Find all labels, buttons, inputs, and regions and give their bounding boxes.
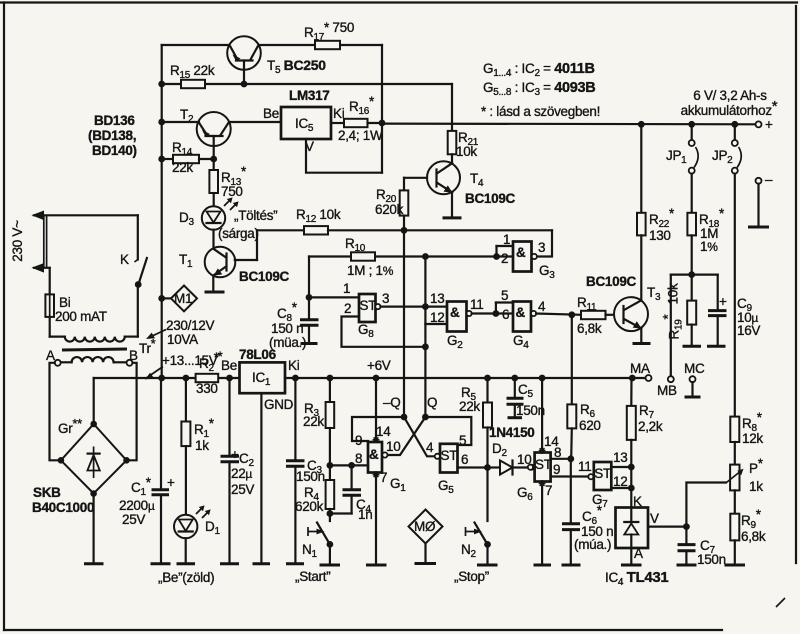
resistor R19 10k (661, 275, 702, 347)
resistor R5 22k (459, 378, 492, 468)
svg-text:LM317: LM317 (289, 88, 330, 103)
svg-text:G2: G2 (447, 333, 463, 351)
svg-text:Ki: Ki (288, 358, 300, 373)
pushbutton N1 Start (295, 523, 340, 585)
svg-text:3: 3 (538, 240, 545, 255)
svg-text:G5...8 : IC3 = 4093B: G5...8 : IC3 = 4093B (483, 80, 595, 98)
svg-text:6,8k: 6,8k (741, 529, 766, 544)
battery + rail (382, 117, 773, 132)
wire -Q vertical (403, 230, 405, 417)
resistor R14 22k (158, 140, 217, 175)
node A (46, 348, 61, 366)
svg-text:BC109C: BC109C (586, 274, 637, 289)
LED D3 Toltes sarga (179, 197, 277, 241)
transformer Tr secondary winding (60, 357, 126, 362)
resistor R11 6,8k (577, 295, 614, 336)
resistor R22 130 (637, 124, 675, 300)
node: bus to rail (158, 375, 165, 382)
node: R4/C4/N1 junction (327, 510, 334, 517)
svg-text:12k: 12k (742, 431, 763, 446)
svg-text:T5 BC250: T5 BC250 (267, 57, 326, 76)
svg-text:+: + (765, 117, 773, 132)
node: C8/G8 junction (306, 257, 313, 301)
resistor R3 22k (303, 378, 334, 465)
svg-text:Tr*: Tr* (139, 336, 156, 356)
svg-text:N2: N2 (461, 542, 476, 560)
svg-text:ST: ST (360, 298, 377, 313)
svg-text:C1*: C1* (131, 475, 152, 498)
svg-text:25V: 25V (122, 512, 145, 527)
label 6V/3,2Ah-s akkumulatorhoz (681, 88, 778, 118)
svg-text:G3: G3 (539, 263, 555, 281)
svg-text:9: 9 (553, 462, 560, 477)
svg-text:G5: G5 (438, 478, 454, 496)
svg-text:750: 750 (221, 184, 243, 199)
svg-text:T1: T1 (179, 252, 193, 270)
svg-text:(sárga): (sárga) (218, 226, 259, 241)
svg-text:9: 9 (355, 433, 362, 448)
wire G1 pin9 loop (352, 417, 404, 441)
svg-text:JP2: JP2 (712, 148, 733, 166)
svg-text:3: 3 (382, 291, 389, 306)
svg-text:230 V~: 230 V~ (10, 220, 25, 262)
svg-text:MA: MA (630, 361, 650, 376)
node: R1 top (183, 375, 190, 382)
svg-text:R22*: R22* (649, 206, 675, 230)
resistor R9 6,8k (725, 490, 766, 565)
voltage regulator IC1 78L06 (221, 347, 300, 564)
wire T5 row corner down to R21 (451, 84, 453, 131)
node: R22 on battery rail (638, 121, 645, 128)
resistor R13 750 (209, 159, 247, 206)
measuring point MC (684, 361, 705, 397)
rail +13..15V / +6V horizontal (left part) (94, 377, 240, 379)
svg-text:12: 12 (613, 474, 627, 489)
svg-text:D2: D2 (492, 441, 507, 459)
wire P wiper to V node (686, 483, 725, 527)
capacitor C6 150n mua (562, 459, 614, 565)
svg-text:(müa.): (müa.) (269, 335, 306, 350)
svg-text:R1*: R1* (194, 416, 215, 440)
svg-text:13: 13 (613, 450, 627, 465)
svg-text:230/12V: 230/12V (166, 318, 214, 333)
node: G7 pin13 (628, 464, 635, 471)
node: V / C7 junction (683, 523, 690, 530)
transistor T2 (158, 107, 281, 159)
resistor R6 620 (567, 315, 600, 459)
svg-text:6: 6 (461, 452, 468, 467)
svg-text:620k: 620k (375, 202, 404, 217)
svg-text:14: 14 (376, 424, 391, 439)
svg-text:4: 4 (538, 299, 546, 314)
svg-text:K: K (120, 252, 129, 267)
svg-text:150n: 150n (516, 403, 545, 418)
svg-text:+: + (231, 447, 239, 462)
svg-text:A: A (46, 348, 55, 363)
svg-text:MC: MC (684, 361, 705, 376)
svg-text:G8: G8 (358, 322, 374, 340)
NAND gate G2 (425, 291, 494, 351)
wire T1 base up to R12 (256, 230, 258, 260)
resistor R2 330 (196, 350, 220, 396)
node: R3 top (327, 375, 334, 382)
svg-text:MØ: MØ (414, 519, 436, 534)
svg-text:1k: 1k (749, 479, 763, 494)
Schmitt gate G6 (mirrored) (517, 378, 588, 565)
svg-text:13: 13 (430, 291, 444, 306)
regulator IC5 LM317 (263, 88, 382, 173)
svg-text:BC109C: BC109C (465, 191, 516, 206)
resistor R16 2,4 1W (331, 94, 383, 143)
svg-text:R19*: R19* (661, 313, 685, 339)
node: R3/R4/G1-8 junction (327, 462, 334, 469)
svg-text:10k: 10k (666, 283, 681, 304)
transistor T1 BC109C (179, 230, 290, 292)
wire R18 junction horizontal (671, 274, 718, 276)
transformer core (62, 349, 127, 350)
wire cross-coupling G1 out to Q (387, 417, 425, 455)
svg-text:&: & (516, 245, 526, 260)
node: Q top junction (422, 253, 429, 260)
node: R6 top (568, 311, 575, 318)
wire R12 corner down to G3 output (537, 230, 552, 256)
svg-text:P*: P* (749, 456, 764, 476)
measuring diamond M1 (158, 286, 197, 312)
svg-text:6,8k: 6,8k (577, 321, 602, 336)
svg-text:22k: 22k (459, 399, 480, 414)
svg-text:D3: D3 (179, 210, 194, 228)
svg-text:R10: R10 (345, 236, 366, 254)
svg-text:G1: G1 (390, 476, 406, 494)
wire R15 row (158, 81, 452, 88)
svg-text:150n: 150n (697, 552, 726, 567)
wire bridge + up to rail (93, 378, 95, 424)
svg-text:ST: ST (594, 466, 611, 481)
transformer Tr primary winding (50, 337, 138, 342)
svg-text:R12 10k: R12 10k (296, 207, 341, 225)
svg-text:„Be”(zöld): „Be”(zöld) (158, 570, 214, 585)
resistor R15 22k (170, 63, 215, 88)
wire R10 row (309, 255, 494, 257)
node B (127, 348, 139, 366)
NAND gate G1 (355, 375, 406, 565)
svg-text:11: 11 (470, 297, 483, 312)
svg-text:R17* 750: R17* 750 (304, 20, 354, 43)
switch K (120, 215, 147, 336)
svg-text:2: 2 (344, 301, 351, 316)
wire to G1 pin8 (330, 464, 368, 466)
svg-text:1n: 1n (358, 507, 372, 522)
svg-text:N1: N1 (302, 542, 317, 560)
svg-text:SKB: SKB (33, 485, 61, 500)
svg-text:&: & (369, 447, 379, 462)
svg-text:D1: D1 (205, 519, 220, 537)
node: G7 pin12 (628, 485, 635, 492)
svg-text:+6V: +6V (367, 358, 391, 373)
svg-text:G6: G6 (517, 485, 533, 503)
shunt regulator IC4 TL431 (605, 494, 686, 588)
wire top (T5 collector row) (162, 44, 382, 46)
svg-text:8: 8 (355, 451, 362, 466)
svg-text:IC4 TL431: IC4 TL431 (605, 569, 668, 588)
svg-text:JP1: JP1 (666, 148, 687, 166)
svg-text:R11: R11 (577, 295, 597, 313)
node: G6 pin14 on rail (539, 375, 546, 382)
svg-text:BC109C: BC109C (239, 269, 290, 284)
capacitor C1 2200u 25V (119, 378, 175, 564)
svg-text:6: 6 (502, 307, 509, 322)
svg-text:–Q: –Q (383, 395, 400, 410)
node: R18 bottom junction (688, 271, 695, 278)
LED D1 (green) (174, 446, 220, 564)
svg-text:10k: 10k (456, 144, 477, 159)
svg-text:T3: T3 (647, 285, 661, 303)
svg-text:GND: GND (264, 397, 294, 412)
transistor T4 BC109C (404, 161, 516, 218)
resistor R17 750 (304, 20, 354, 49)
wire cross-coupling -Q to G5 input (404, 417, 435, 456)
node: G4 input junction (493, 310, 500, 317)
svg-text:G1...4 : IC2 = 4011B: G1...4 : IC2 = 4011B (483, 61, 595, 79)
jumper JP2 (712, 124, 741, 173)
capacitor C2 22u 25V (220, 378, 254, 564)
svg-text:130: 130 (649, 228, 671, 243)
svg-text:7: 7 (380, 470, 387, 485)
svg-text:10: 10 (517, 452, 531, 467)
label Tr* with arrow (139, 330, 166, 357)
svg-text:(BD138,: (BD138, (88, 128, 136, 143)
svg-text:Be: Be (221, 358, 237, 373)
svg-text:200 mAT: 200 mAT (55, 309, 107, 324)
svg-text:620: 620 (579, 418, 601, 433)
capacitor C8 150n mua (269, 297, 319, 350)
svg-text:2,2k: 2,2k (638, 419, 663, 434)
wire G5 pin5 loop (425, 417, 471, 445)
resistor R7 2,2k (627, 378, 663, 508)
svg-text:150 n: 150 n (271, 321, 303, 336)
svg-text:2: 2 (501, 251, 508, 266)
node: C5 top on rail (511, 375, 518, 382)
node: C2 top (226, 375, 233, 382)
svg-text:10: 10 (386, 439, 400, 454)
wire JP2 down to R8 chain (734, 174, 736, 417)
wire B to bridge (130, 363, 137, 461)
resistor R20 620k (375, 178, 408, 231)
svg-text:5: 5 (459, 433, 466, 448)
node: R5/G5/N2 junction (484, 464, 491, 471)
ground below bridge (84, 494, 104, 564)
node: G6 pin8 / C6 (567, 455, 574, 462)
node: R5 top on rail (484, 375, 491, 382)
node: C4 top (348, 462, 355, 469)
node: C3 top (292, 375, 299, 382)
node: G8 feedback / Q (422, 343, 429, 350)
resistor R8 12k (730, 410, 763, 446)
svg-text:1N4150: 1N4150 (489, 425, 535, 440)
right vertical (T5 row to V wire) (381, 45, 383, 173)
resistor R1 1k (181, 378, 214, 453)
note text block (481, 61, 600, 119)
svg-text:A: A (634, 546, 643, 561)
node: Q junction (422, 414, 429, 421)
wire Q vertical (424, 257, 426, 418)
svg-text:620k: 620k (295, 499, 324, 514)
svg-text:+: + (167, 475, 175, 490)
svg-text:B40C1000: B40C1000 (32, 500, 94, 515)
diode D2 1N4150 (488, 425, 535, 475)
wire G4 out to R11 (536, 314, 581, 315)
measuring diamond M0 (409, 510, 443, 564)
svg-text:&: & (516, 305, 526, 320)
node: G8 out / G2-13 (422, 303, 429, 310)
svg-text:22k: 22k (303, 414, 324, 429)
svg-text:25V: 25V (231, 482, 254, 497)
svg-text:Be: Be (263, 106, 279, 121)
Schmitt gate G7 (578, 450, 631, 510)
svg-text:MB: MB (657, 383, 677, 398)
svg-text:* : lásd a szövegben!: * : lásd a szövegben! (481, 104, 600, 119)
capacitor C7 150n (677, 527, 726, 567)
node: -Q junction (401, 414, 408, 421)
svg-text:Gr**: Gr** (58, 416, 82, 436)
svg-text:Bi: Bi (59, 295, 71, 310)
resistor R18 1M 1% (687, 174, 725, 275)
transistor T5 BC250 (227, 36, 326, 84)
transistor T3 BC109C (586, 274, 661, 344)
svg-text:12: 12 (430, 310, 444, 325)
svg-text:ST: ST (441, 448, 458, 463)
bridge rectifier Gr SKB B40C1000 (32, 416, 130, 515)
svg-text:1: 1 (503, 232, 510, 247)
resistor R4 620k (295, 465, 334, 521)
svg-text:BD136: BD136 (94, 113, 135, 128)
svg-text:2200µ: 2200µ (119, 498, 155, 513)
svg-text:BD140): BD140) (92, 143, 137, 158)
svg-text:330: 330 (196, 381, 218, 396)
svg-text:M1: M1 (174, 291, 192, 306)
svg-text:1k: 1k (195, 438, 209, 453)
jumper JP1 (666, 124, 698, 173)
svg-text:Q: Q (427, 395, 437, 410)
svg-text:1M ; 1%: 1M ; 1% (347, 263, 394, 278)
node: R16 out / battery rail (379, 120, 386, 127)
svg-text:7: 7 (545, 483, 552, 498)
measuring point MA (629, 361, 652, 381)
svg-text:+: + (719, 294, 727, 309)
svg-text:„Stop”: „Stop” (454, 569, 489, 584)
Schmitt gate G5 (426, 433, 488, 496)
left bus vertical (x=162) from top wire to rail (161, 45, 163, 378)
Schmitt gate G8 (309, 281, 425, 347)
fuse Bi 200mAT (45, 268, 106, 337)
svg-text:22k: 22k (172, 160, 193, 175)
svg-text:4: 4 (426, 440, 434, 455)
svg-text:5: 5 (501, 288, 508, 303)
capacitor C4 1n (330, 465, 373, 522)
svg-text:1: 1 (343, 281, 350, 296)
svg-text:ST: ST (535, 457, 552, 472)
battery - terminal (748, 172, 773, 227)
svg-text:1%: 1% (700, 239, 718, 254)
svg-text:2,4; 1W: 2,4; 1W (338, 128, 383, 143)
svg-text:T4: T4 (470, 171, 484, 189)
resistor R10 1M 1% (345, 236, 394, 278)
capacitor C3 150n (286, 378, 325, 564)
rail +6V (right of IC1) (285, 377, 646, 379)
svg-text:10VA: 10VA (167, 332, 198, 347)
svg-text:R15 22k: R15 22k (170, 63, 215, 81)
resistor R12 10k (257, 207, 552, 235)
resistor R21 10k (448, 130, 479, 163)
svg-text:&: & (450, 305, 460, 320)
svg-text:„Töltés”: „Töltés” (234, 208, 277, 223)
label BD136 (BD138, BD140) (88, 113, 137, 158)
svg-text:–: – (765, 172, 773, 187)
wire A to bridge (50, 363, 59, 461)
svg-text:6 V/ 3,2 Ah-s: 6 V/ 3,2 Ah-s (693, 88, 767, 103)
svg-text:16V: 16V (737, 323, 760, 338)
svg-text:150n: 150n (296, 469, 325, 484)
svg-text:R9*: R9* (741, 507, 762, 531)
230V mains input arrows (10, 211, 138, 273)
svg-text:R16*: R16* (349, 94, 375, 117)
wire down to MB (657, 275, 677, 398)
svg-text:„Start”: „Start” (295, 569, 330, 584)
NAND gate G3 (493, 232, 555, 281)
capacitor C5 150n (507, 378, 545, 418)
svg-text:Ki: Ki (333, 106, 345, 121)
svg-text:V: V (650, 511, 659, 526)
svg-text:G4: G4 (513, 333, 529, 351)
node: R20/R12/-Q junction (401, 227, 408, 234)
svg-text:(múa.): (múa.) (574, 537, 611, 552)
node: JP2 on battery rail (731, 121, 738, 128)
svg-text:11: 11 (578, 459, 591, 474)
pushbutton N2 Stop (454, 468, 498, 585)
NAND gate G4 (496, 288, 546, 351)
capacitor C9 10u 16V (707, 275, 760, 347)
label +13...15V* with arrow (145, 349, 223, 380)
node: JP1 on battery rail (688, 121, 695, 128)
potentiometer P 1k (726, 442, 764, 494)
svg-text:8: 8 (554, 445, 561, 460)
svg-text:22µ: 22µ (231, 466, 252, 481)
